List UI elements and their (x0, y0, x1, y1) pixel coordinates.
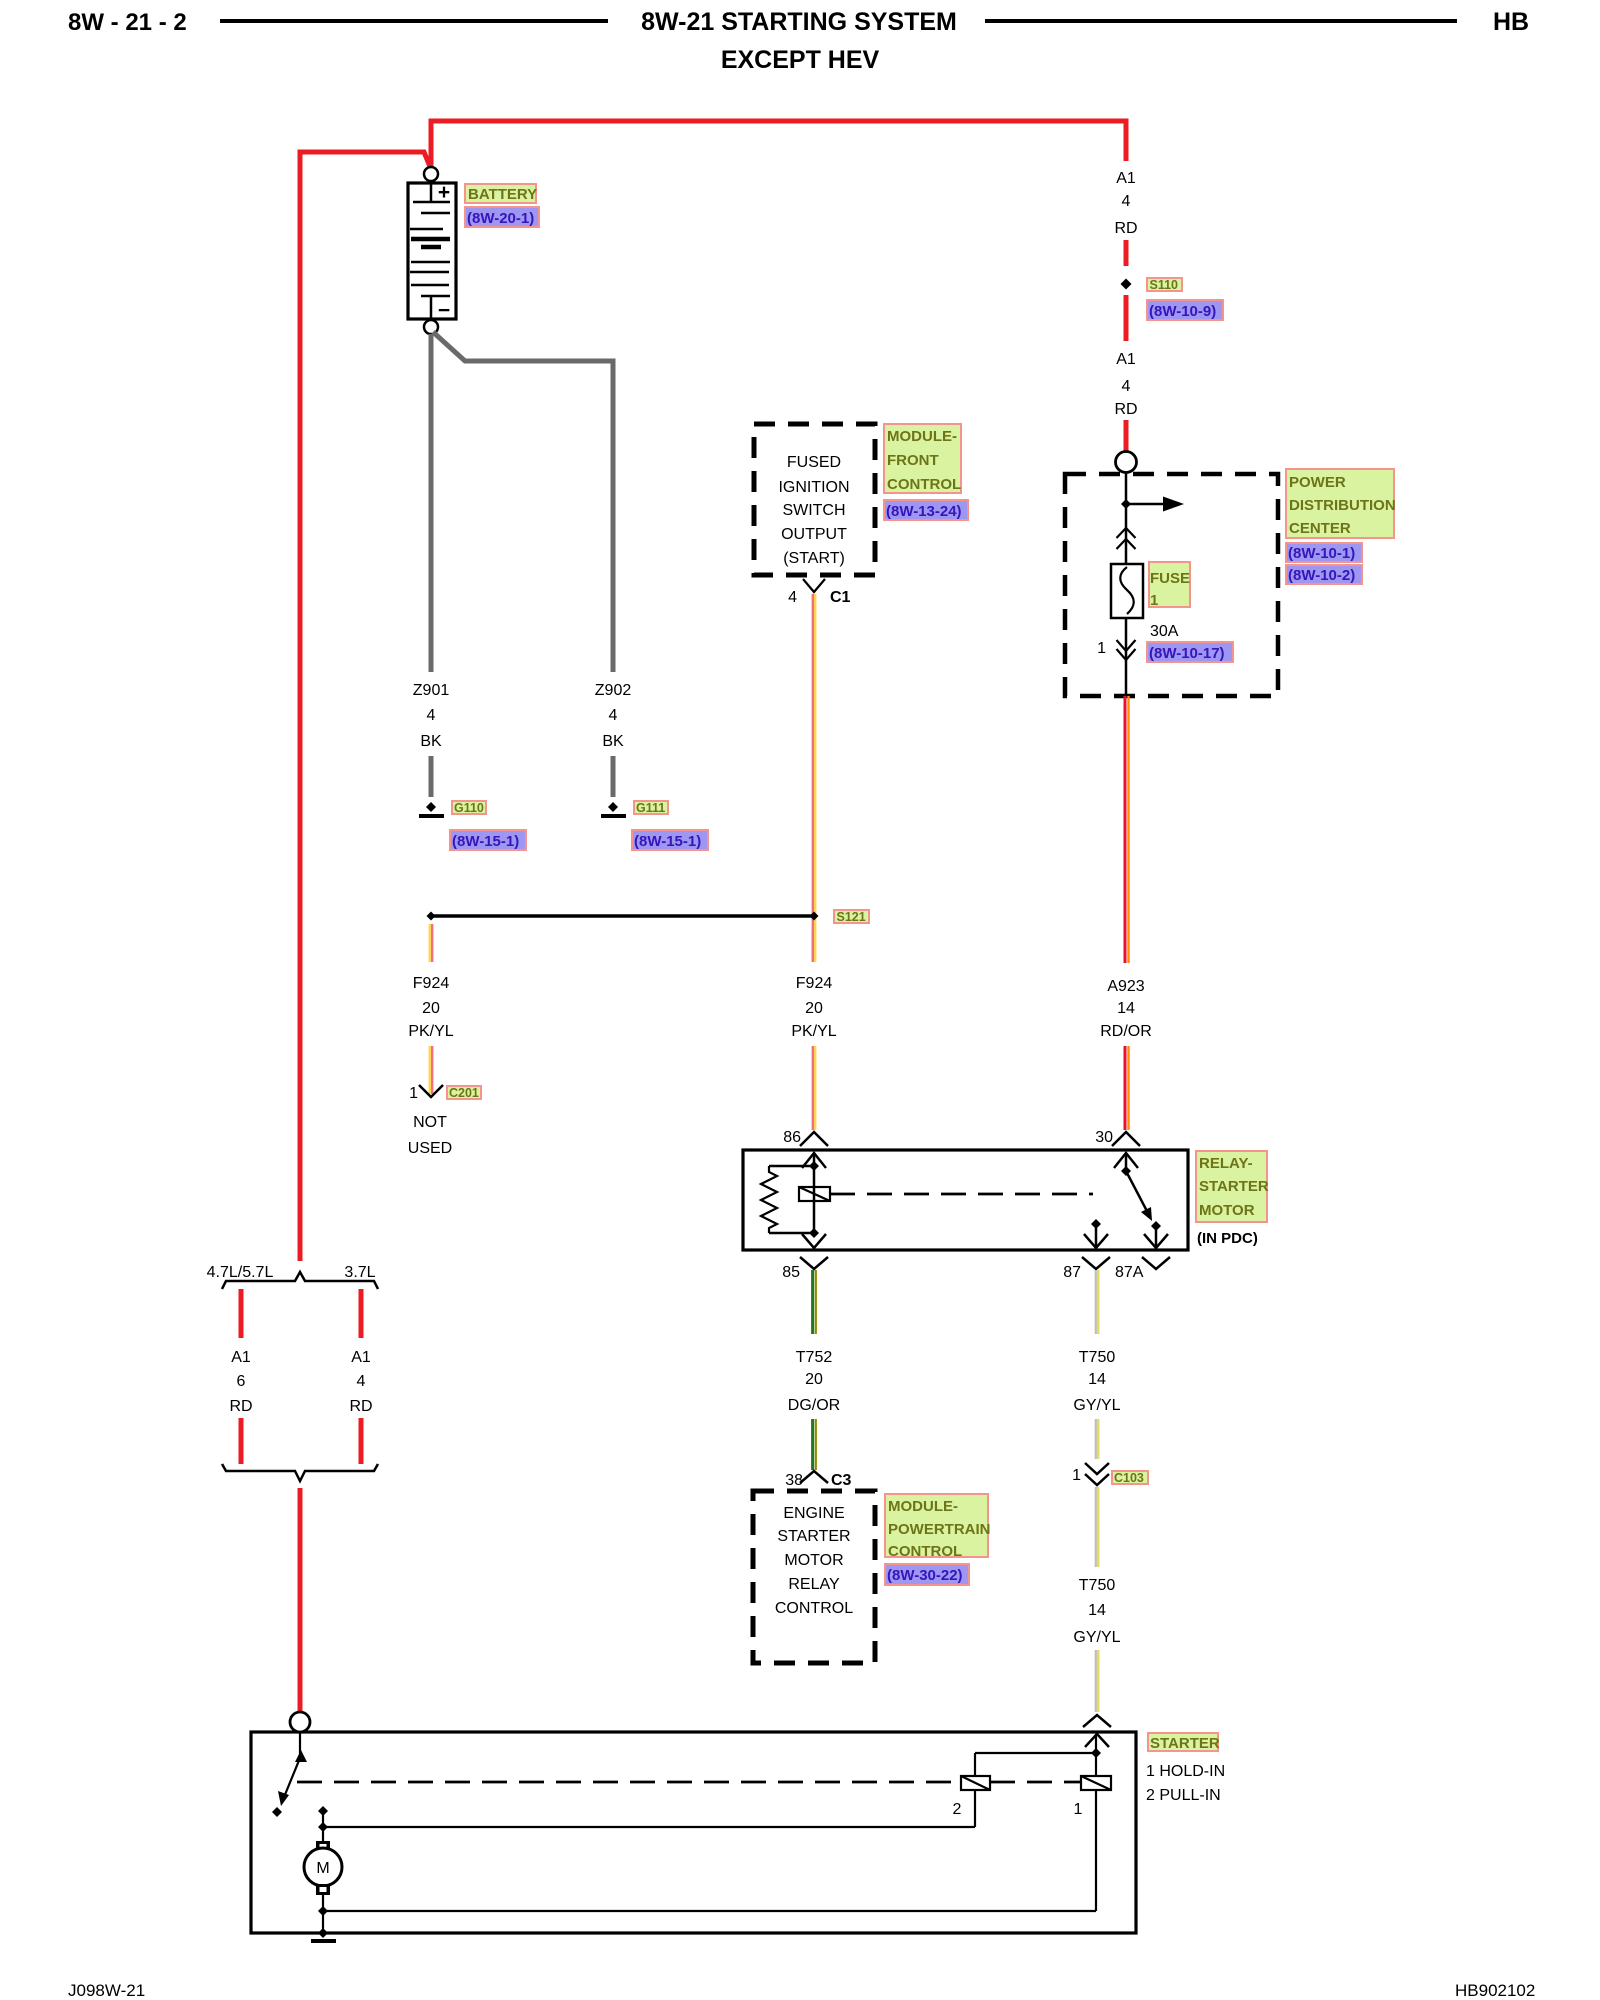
svg-text:Z901: Z901 (413, 682, 450, 699)
svg-text:BATTERY: BATTERY (468, 186, 537, 203)
svg-text:BK: BK (602, 733, 624, 750)
svg-text:FUSE: FUSE (1150, 570, 1190, 587)
svg-text:6: 6 (237, 1373, 246, 1390)
svg-text:F924: F924 (413, 975, 450, 992)
svg-text:4: 4 (427, 707, 436, 724)
svg-text:G111: G111 (636, 801, 665, 815)
svg-text:CONTROL: CONTROL (775, 1600, 853, 1617)
svg-text:(START): (START) (783, 550, 845, 567)
svg-text:FRONT: FRONT (887, 452, 939, 469)
svg-text:RD: RD (229, 1398, 252, 1415)
svg-text:(8W-10-9): (8W-10-9) (1149, 303, 1216, 320)
svg-text:RD: RD (349, 1398, 372, 1415)
svg-text:A923: A923 (1107, 978, 1144, 995)
svg-text:(8W-10-2): (8W-10-2) (1288, 567, 1355, 584)
svg-text:BK: BK (420, 733, 442, 750)
svg-text:85: 85 (782, 1264, 800, 1281)
svg-text:87A: 87A (1115, 1264, 1144, 1281)
svg-text:POWER: POWER (1289, 474, 1346, 491)
svg-text:20: 20 (805, 1000, 823, 1017)
svg-text:STARTER: STARTER (1199, 1178, 1269, 1195)
svg-text:C1: C1 (830, 589, 851, 606)
svg-text:STARTER: STARTER (1150, 1735, 1220, 1752)
svg-text:14: 14 (1088, 1602, 1106, 1619)
svg-text:RELAY: RELAY (788, 1576, 840, 1593)
svg-text:(8W-13-24): (8W-13-24) (886, 503, 962, 520)
svg-text:EXCEPT HEV: EXCEPT HEV (721, 46, 880, 74)
svg-text:IGNITION: IGNITION (778, 479, 849, 496)
svg-text:(8W-30-22): (8W-30-22) (887, 1567, 963, 1584)
svg-text:SWITCH: SWITCH (782, 502, 845, 519)
svg-text:S110: S110 (1150, 278, 1179, 292)
svg-text:4: 4 (1122, 193, 1131, 210)
svg-text:F924: F924 (796, 975, 833, 992)
svg-text:A1: A1 (351, 1349, 371, 1366)
svg-text:30A: 30A (1150, 623, 1179, 640)
svg-text:(IN PDC): (IN PDC) (1197, 1230, 1258, 1247)
svg-text:GY/YL: GY/YL (1073, 1629, 1120, 1646)
svg-text:S121: S121 (837, 910, 866, 924)
svg-text:DISTRIBUTION: DISTRIBUTION (1289, 497, 1396, 514)
svg-text:2: 2 (953, 1801, 962, 1818)
svg-text:PK/YL: PK/YL (408, 1023, 453, 1040)
svg-text:C201: C201 (449, 1086, 479, 1100)
svg-text:USED: USED (408, 1140, 452, 1157)
svg-text:(8W-15-1): (8W-15-1) (634, 833, 701, 850)
svg-text:1: 1 (409, 1085, 418, 1102)
svg-text:RELAY-: RELAY- (1199, 1155, 1253, 1172)
svg-text:4: 4 (357, 1373, 366, 1390)
svg-text:C103: C103 (1114, 1471, 1144, 1485)
svg-text:STARTER: STARTER (777, 1528, 850, 1545)
svg-text:20: 20 (805, 1371, 823, 1388)
svg-text:MODULE-: MODULE- (888, 1498, 958, 1515)
svg-text:RD/OR: RD/OR (1100, 1023, 1152, 1040)
svg-text:1: 1 (1074, 1801, 1083, 1818)
svg-text:3.7L: 3.7L (344, 1264, 375, 1281)
svg-text:HB902102: HB902102 (1455, 1981, 1535, 2000)
svg-text:RD: RD (1114, 401, 1137, 418)
svg-text:A1: A1 (1116, 170, 1136, 187)
svg-text:DG/OR: DG/OR (788, 1397, 840, 1414)
svg-text:A1: A1 (231, 1349, 251, 1366)
svg-text:+: + (438, 181, 450, 204)
svg-text:GY/YL: GY/YL (1073, 1397, 1120, 1414)
svg-text:−: − (438, 299, 450, 322)
svg-text:NOT: NOT (413, 1114, 447, 1131)
svg-text:RD: RD (1114, 220, 1137, 237)
svg-text:T750: T750 (1079, 1577, 1116, 1594)
svg-text:FUSED: FUSED (787, 454, 841, 471)
svg-text:4: 4 (788, 589, 797, 606)
svg-text:14: 14 (1088, 1371, 1106, 1388)
svg-text:POWERTRAIN: POWERTRAIN (888, 1521, 991, 1538)
svg-text:(8W-10-17): (8W-10-17) (1149, 645, 1225, 662)
svg-text:1: 1 (1150, 592, 1158, 609)
svg-text:CONTROL: CONTROL (888, 1543, 962, 1560)
svg-text:86: 86 (783, 1129, 801, 1146)
svg-text:HB: HB (1493, 8, 1529, 36)
svg-text:87: 87 (1063, 1264, 1081, 1281)
svg-text:C3: C3 (831, 1472, 852, 1489)
svg-text:CENTER: CENTER (1289, 520, 1351, 537)
svg-text:CONTROL: CONTROL (887, 476, 961, 493)
svg-text:PK/YL: PK/YL (791, 1023, 836, 1040)
svg-text:M: M (316, 1860, 329, 1877)
svg-text:1: 1 (1072, 1467, 1081, 1484)
svg-text:14: 14 (1117, 1000, 1135, 1017)
svg-text:20: 20 (422, 1000, 440, 1017)
svg-text:MODULE-: MODULE- (887, 428, 957, 445)
svg-text:MOTOR: MOTOR (1199, 1202, 1255, 1219)
svg-text:J098W-21: J098W-21 (68, 1981, 145, 2000)
svg-text:(8W-10-1): (8W-10-1) (1288, 545, 1355, 562)
svg-text:1 HOLD-IN: 1 HOLD-IN (1146, 1763, 1225, 1780)
svg-text:4.7L/5.7L: 4.7L/5.7L (207, 1264, 274, 1281)
svg-text:G110: G110 (454, 801, 484, 815)
svg-text:(8W-15-1): (8W-15-1) (452, 833, 519, 850)
svg-text:MOTOR: MOTOR (784, 1552, 843, 1569)
svg-text:Z902: Z902 (595, 682, 632, 699)
svg-text:8W-21 STARTING SYSTEM: 8W-21 STARTING SYSTEM (641, 8, 957, 36)
svg-text:38: 38 (785, 1472, 803, 1489)
svg-text:2 PULL-IN: 2 PULL-IN (1146, 1787, 1221, 1804)
svg-text:4: 4 (609, 707, 618, 724)
svg-text:T752: T752 (796, 1349, 833, 1366)
svg-text:4: 4 (1122, 378, 1131, 395)
svg-text:ENGINE: ENGINE (783, 1505, 844, 1522)
svg-text:T750: T750 (1079, 1349, 1116, 1366)
svg-text:(8W-20-1): (8W-20-1) (467, 210, 534, 227)
svg-text:A1: A1 (1116, 351, 1136, 368)
svg-text:1: 1 (1097, 640, 1106, 657)
svg-text:8W - 21 - 2: 8W - 21 - 2 (68, 9, 187, 36)
svg-text:OUTPUT: OUTPUT (781, 526, 847, 543)
svg-text:30: 30 (1095, 1129, 1113, 1146)
